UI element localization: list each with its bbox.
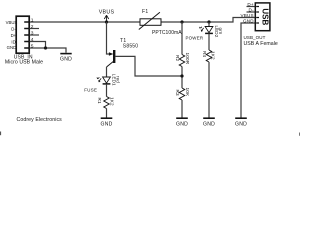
junction pin4/pin5 (44, 46, 47, 49)
svg-text:VBUS: VBUS (6, 20, 18, 25)
wire T1 collector down to LED1 (106, 67, 108, 77)
wire rail down to LED2 (208, 22, 210, 27)
junction LED2 branch on rail (207, 20, 210, 23)
svg-text:VBUS: VBUS (240, 13, 253, 18)
pin name GND (USB_IN pin 5) (7, 45, 17, 50)
resistor R4 1K2 (202, 50, 216, 62)
junction R2 branch on rail (180, 20, 183, 23)
svg-text:GND: GND (176, 122, 188, 128)
junction VBUS / T1 emitter branch (105, 20, 108, 23)
ground GND under R3 (176, 118, 188, 127)
svg-text:POWER: POWER (185, 35, 203, 40)
pin number 1 (31, 17, 34, 23)
ground GND under R4 (203, 118, 215, 127)
wire USB_OUT D- stub (247, 11, 255, 13)
resistor R1 1K2 (97, 97, 114, 109)
wire USB_OUT GND pin down to ground (241, 23, 255, 118)
wire R1 to ground (106, 109, 108, 119)
ground GND left (60, 54, 72, 63)
wire LED2 to R4 (208, 34, 210, 51)
svg-text:VBUS: VBUS (99, 9, 115, 15)
pin name ID (USB_IN pin 4) (11, 40, 15, 45)
pin number 4 (31, 37, 34, 43)
pin name D- (USB_IN pin 2) (11, 27, 16, 32)
label POWER (185, 35, 203, 40)
svg-text:F1: F1 (142, 9, 148, 15)
label Micro USB Male (5, 60, 43, 66)
svg-text:PPTC100mA: PPTC100mA (152, 30, 182, 36)
wire USB_OUT D+ stub (247, 6, 255, 8)
ground GND under USB_OUT (235, 118, 247, 127)
wire R3 to ground (181, 100, 183, 118)
value PPTC100mA (152, 30, 182, 36)
svg-text:S8550: S8550 (123, 44, 138, 50)
wire LED1 to R1 (106, 84, 108, 97)
svg-text:grn: grn (218, 28, 223, 35)
label USB_IN (14, 54, 33, 60)
pin name D+ (USB_OUT) (247, 2, 254, 7)
svg-text:USB A Female: USB A Female (244, 41, 278, 47)
svg-text:USB: USB (261, 8, 270, 25)
connector USB_IN box (16, 16, 29, 53)
resistor R3 10K (175, 88, 190, 101)
svg-text:1K2: 1K2 (211, 51, 216, 60)
svg-text:1K2: 1K2 (110, 97, 115, 106)
svg-text:D-: D- (11, 27, 16, 32)
svg-text:FUSE: FUSE (84, 87, 97, 92)
transistor Q T1 S8550 (107, 38, 139, 67)
svg-text:GND: GND (101, 122, 113, 128)
svg-text:R1: R1 (97, 98, 102, 105)
svg-text:USB_OUT: USB_OUT (244, 35, 266, 40)
border tick bottom-right (299, 133, 301, 136)
svg-text:red: red (116, 76, 121, 83)
border tick bottom-left (0, 132, 2, 136)
wire USB_IN pin5 GND run (30, 48, 67, 53)
svg-text:LED1: LED1 (111, 74, 116, 86)
LED D LED2 grn (199, 26, 223, 38)
resistor R2 100R (175, 53, 190, 67)
label Codrey Electronics (17, 117, 63, 123)
pin name VBUS (USB_IN pin 1) (6, 20, 18, 25)
label FUSE (84, 87, 97, 92)
wire T1 base to R2/R3 junction (115, 56, 182, 76)
pin name VBUS (USB_OUT) (240, 13, 253, 18)
svg-text:Codrey Electronics: Codrey Electronics (17, 117, 63, 123)
connector USB_OUT box (255, 3, 270, 31)
svg-text:Micro USB Male: Micro USB Male (5, 60, 43, 66)
svg-text:D-: D- (249, 7, 255, 12)
svg-text:10K: 10K (185, 88, 190, 98)
svg-text:R4: R4 (202, 51, 207, 58)
svg-text:GND: GND (7, 45, 17, 50)
wire USB_IN pin2 stub (30, 28, 40, 30)
pin number 2 (31, 24, 34, 30)
USB_OUT pin contact ticks (256, 7, 259, 24)
pin number 5 (31, 43, 34, 49)
svg-text:100R: 100R (185, 53, 190, 65)
fuse F1 (139, 9, 161, 29)
svg-text:GND: GND (60, 56, 72, 62)
pin number 3 (31, 30, 34, 36)
wire VBUS down to T1 emitter (107, 22, 110, 54)
svg-text:R2: R2 (175, 55, 180, 62)
wire USB_IN pin3 stub (30, 34, 40, 36)
ground GND under R1 (101, 118, 113, 127)
svg-text:ID: ID (11, 40, 15, 45)
wire rail down to R2 (181, 22, 183, 55)
svg-text:R3: R3 (175, 90, 180, 97)
pin name D+ (USB_IN pin 3) (11, 33, 17, 38)
wire R4 to ground (208, 62, 210, 118)
pin name GND (USB_OUT) (243, 18, 254, 23)
LED D LED1 red (97, 74, 121, 86)
wire VBUS rail from USB_IN pin1 to fuse (30, 21, 141, 23)
svg-text:GND: GND (203, 122, 215, 128)
label USB_OUT (244, 35, 266, 40)
junction base/R2/R3 (180, 74, 183, 77)
svg-text:1: 1 (31, 17, 34, 23)
svg-text:GND: GND (235, 122, 247, 128)
pin name D- (USB_OUT) (249, 7, 255, 12)
USB_IN pin contact ticks (24, 22, 28, 48)
wire R2 to junction (181, 67, 183, 89)
svg-text:D+: D+ (247, 2, 254, 7)
svg-text:GND: GND (243, 18, 254, 23)
wire VBUS rail fuse to USB_OUT jog (161, 18, 255, 23)
label USB A Female (244, 41, 278, 47)
node VBUS power flag (99, 9, 115, 22)
wire USB_IN pin4 ID to GND (30, 42, 46, 49)
svg-text:D+: D+ (11, 33, 17, 38)
